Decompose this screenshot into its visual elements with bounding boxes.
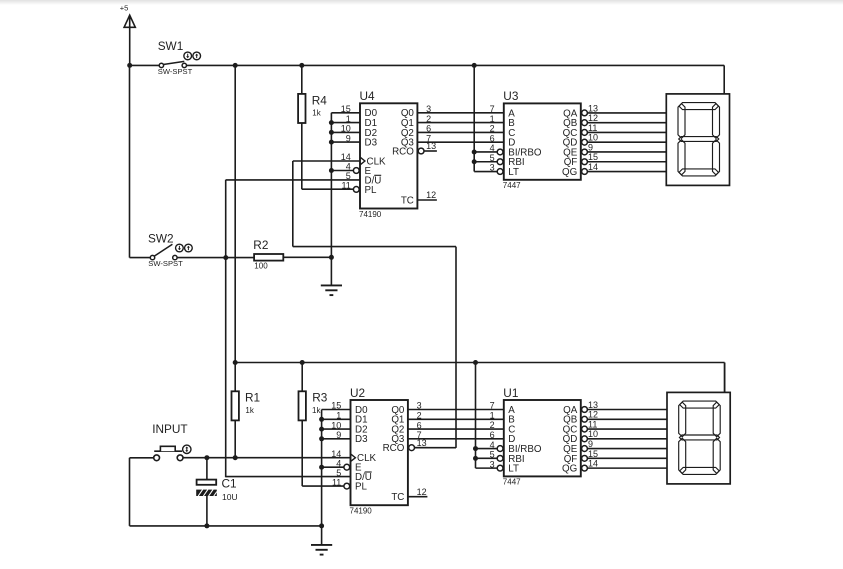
svg-text:14: 14: [588, 459, 598, 469]
wire U4 CLK from U2 RCO riser: [293, 161, 456, 448]
resistor R2: [253, 238, 283, 270]
seven-segment display DS2: [667, 392, 730, 484]
INPUT key arrow: [183, 445, 191, 453]
switch SW2: [148, 232, 183, 269]
wire U4 E to chain: [331, 170, 353, 172]
svg-text:12: 12: [426, 190, 436, 200]
wire C1 to bottom rail: [206, 496, 208, 526]
wire U2 RCO to riser: [415, 447, 457, 449]
svg-text:11: 11: [341, 181, 350, 191]
svg-text:10: 10: [588, 429, 598, 439]
svg-text:SW1: SW1: [158, 39, 184, 53]
wire bottom rail to ground: [321, 526, 323, 545]
junction clock line at R1: [233, 455, 238, 460]
svg-text:12: 12: [588, 410, 598, 420]
svg-text:10: 10: [588, 133, 598, 143]
power +5 symbol: [120, 4, 136, 65]
svg-text:1k: 1k: [312, 108, 321, 117]
svg-text:100: 100: [254, 262, 268, 271]
wire D/U net vertical: [225, 180, 227, 478]
svg-text:15: 15: [588, 152, 598, 162]
junction U2 D3: [319, 436, 324, 441]
junction mid rail at R1: [233, 360, 238, 365]
switch SW1: [158, 39, 193, 76]
svg-text:TC: TC: [391, 492, 404, 503]
junction mid rail at R3: [300, 360, 305, 365]
wire U2 E to chain: [322, 466, 344, 468]
wire U4 Q2 to U3 C: [417, 131, 503, 133]
wire U4 D/U input: [226, 179, 360, 181]
svg-text:12: 12: [588, 113, 598, 123]
svg-text:QG: QG: [562, 464, 577, 475]
svg-text:QG: QG: [562, 167, 577, 178]
svg-text:PL: PL: [365, 185, 378, 196]
counter U2 74190: [331, 386, 427, 516]
svg-text:1: 1: [490, 410, 495, 420]
wire R1 to clock line: [234, 420, 236, 458]
svg-text:10U: 10U: [222, 492, 238, 502]
wire R4 to U4 PL: [302, 123, 354, 189]
junction top rail at R1 column: [233, 63, 238, 68]
counter U4 74190: [341, 89, 437, 219]
resistor R1: [232, 391, 261, 421]
wire R3 to U2 PL: [302, 420, 344, 486]
wire SW2 to R2: [177, 257, 254, 259]
svg-text:1: 1: [490, 114, 495, 124]
wire +5 drop to U1 lamp-test pins: [476, 363, 498, 469]
svg-text:LT: LT: [508, 464, 519, 475]
svg-text:C1: C1: [222, 477, 237, 491]
junction bottom rail at ground: [319, 523, 324, 528]
svg-text:1k: 1k: [245, 406, 254, 415]
resistor R3: [299, 391, 328, 421]
wire +5 top rail: [130, 64, 725, 66]
wire top rail to display DS1: [723, 65, 725, 94]
svg-text:6: 6: [490, 430, 495, 440]
svg-text:D3: D3: [365, 138, 378, 149]
wire R2 to ground junction: [283, 256, 331, 258]
junction U4 D2: [329, 130, 334, 135]
ground (lower): [311, 545, 332, 555]
wire top rail to R4: [301, 65, 303, 94]
wire U4 Q0 to U3 A: [417, 112, 503, 114]
svg-text:TC: TC: [401, 195, 414, 206]
junction U4 D1: [329, 120, 334, 125]
svg-text:15: 15: [588, 449, 598, 459]
resistor R4: [298, 93, 327, 123]
svg-text:D3: D3: [355, 434, 368, 445]
ground (upper): [321, 285, 342, 295]
wire U2 Q0 to U1 A: [408, 409, 504, 411]
svg-text:U1: U1: [503, 386, 518, 400]
svg-text:2: 2: [490, 124, 495, 134]
svg-text:R1: R1: [245, 391, 260, 405]
svg-text:1k: 1k: [312, 406, 321, 415]
junction U4 E: [329, 168, 334, 173]
svg-text:R4: R4: [312, 93, 328, 107]
wire U4 D0-D3 chain: [331, 113, 360, 257]
wire clock line to C1: [206, 458, 208, 480]
svg-text:74190: 74190: [359, 210, 382, 219]
wire U4 Q3 to U3 D: [417, 141, 503, 143]
svg-text:SW2: SW2: [148, 232, 174, 246]
svg-text:U3: U3: [503, 89, 519, 103]
svg-text:R2: R2: [253, 238, 268, 252]
wire +5 mid rail: [235, 363, 724, 393]
svg-text:RCO: RCO: [383, 443, 405, 454]
svg-text:U2: U2: [350, 386, 365, 400]
decoder U1 7447: [490, 386, 598, 487]
junction U4 D3: [329, 140, 334, 145]
svg-text:SW-SPST: SW-SPST: [148, 259, 183, 268]
wire mid rail to R1: [234, 363, 236, 392]
wire U2 Q3 to U1 D: [408, 438, 504, 440]
svg-text:13: 13: [588, 103, 598, 113]
wire U2 Q2 to U1 C: [408, 428, 504, 430]
wire U2 D/U input: [226, 476, 351, 478]
decoder U3 7447: [490, 89, 598, 190]
svg-text:7447: 7447: [503, 181, 521, 190]
junction U1 RBI: [473, 456, 478, 461]
wire mid rail to display DS2: [724, 363, 726, 393]
junction U2 D2: [319, 427, 324, 432]
seven-segment display DS1: [666, 94, 729, 185]
wire clock line INPUT to U2 CLK: [183, 457, 351, 459]
capacitor C1: [196, 477, 237, 502]
wire +5 drop to SW2: [130, 65, 151, 257]
svg-text:R3: R3: [312, 391, 328, 405]
svg-text:U4: U4: [360, 89, 376, 103]
svg-text:7: 7: [490, 401, 495, 411]
svg-text:LT: LT: [508, 167, 519, 178]
svg-text:13: 13: [588, 400, 598, 410]
junction D/U net at SW2 wire: [223, 255, 228, 260]
svg-text:6: 6: [490, 133, 495, 143]
SW2 key arrows: [176, 244, 193, 252]
svg-text:INPUT: INPUT: [152, 422, 187, 436]
wire +5 drop to U3 lamp-test pins: [474, 65, 497, 171]
svg-text:74190: 74190: [350, 507, 373, 516]
wire junction to top ground: [330, 257, 332, 285]
svg-text:9: 9: [588, 439, 593, 449]
junction U2 E: [319, 465, 324, 470]
junction bottom rail at C1: [204, 523, 209, 528]
svg-text:9: 9: [588, 142, 593, 152]
junction U2 D1: [319, 417, 324, 422]
junction U3 BI/RBO: [472, 149, 477, 154]
svg-text:7447: 7447: [503, 478, 521, 487]
svg-text:14: 14: [588, 162, 598, 172]
SW1 key arrows: [184, 52, 201, 60]
wire U3 outputs to display DS1: [587, 113, 666, 172]
wire U1 outputs to display DS2: [587, 410, 667, 469]
svg-text:7: 7: [490, 104, 495, 114]
wire U2 D0-D3 chain: [322, 410, 351, 526]
junction top rail at R4: [299, 63, 304, 68]
svg-text:11: 11: [588, 123, 597, 133]
svg-text:SW-SPST: SW-SPST: [158, 67, 193, 76]
svg-text:RCO: RCO: [392, 146, 414, 157]
svg-text:2: 2: [490, 420, 495, 430]
pushbutton INPUT: [152, 422, 187, 460]
junction clock line at C1: [204, 455, 209, 460]
wire U2 Q1 to U1 B: [408, 418, 504, 420]
wire INPUT left leg: [130, 458, 322, 526]
svg-text:PL: PL: [355, 482, 368, 493]
junction R2 / D-chain to ground: [329, 255, 334, 260]
junction U3 RBI: [472, 159, 477, 164]
junction top rail at +5 drop: [127, 63, 132, 68]
junction U1 BI/RBO: [473, 446, 478, 451]
wire mid rail to R3: [301, 363, 303, 392]
svg-text:11: 11: [588, 419, 597, 429]
wire U4 Q1 to U3 B: [417, 122, 503, 124]
junction top rail at U3 drop: [472, 63, 477, 68]
junction mid rail at U1 drop: [473, 360, 478, 365]
wire +5 column to mid rail: [234, 65, 236, 362]
svg-text:12: 12: [417, 487, 427, 497]
